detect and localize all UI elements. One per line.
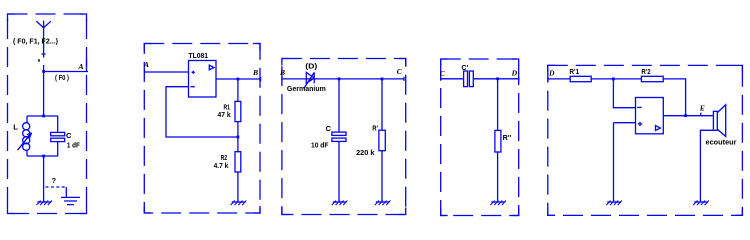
svg-text:TL081: TL081 [189, 53, 209, 60]
svg-text:C: C [440, 69, 446, 78]
svg-text:C: C [66, 131, 72, 140]
svg-text:R': R' [372, 125, 378, 132]
svg-text:4.7 k: 4.7 k [214, 163, 229, 170]
svg-text:1 dF: 1 dF [67, 143, 81, 150]
svg-text:R'1: R'1 [569, 69, 579, 76]
svg-text:R1: R1 [224, 104, 231, 111]
svg-text:B: B [279, 68, 285, 77]
svg-text:D: D [511, 69, 518, 78]
svg-text:A: A [143, 60, 149, 69]
svg-text:C': C' [461, 65, 468, 72]
svg-text:C: C [326, 124, 332, 133]
svg-text:?: ? [52, 176, 57, 185]
svg-text:R'': R'' [503, 135, 512, 142]
svg-text:R'2: R'2 [641, 69, 650, 76]
svg-text:220 k: 220 k [356, 150, 374, 157]
svg-text:A: A [78, 62, 84, 71]
svg-text:C: C [397, 67, 403, 76]
svg-text:L: L [13, 122, 18, 131]
svg-text:Germanium: Germanium [287, 86, 326, 93]
svg-text:D: D [548, 68, 555, 77]
svg-text:( F0 ): ( F0 ) [55, 75, 69, 82]
svg-text:10 dF: 10 dF [311, 142, 329, 149]
svg-text:( F0, F1, F2...): ( F0, F1, F2...) [13, 39, 58, 46]
svg-text:ecouteur: ecouteur [706, 140, 737, 147]
svg-text:47 k: 47 k [218, 112, 231, 119]
svg-text:R2: R2 [221, 155, 228, 162]
svg-text:B: B [252, 68, 258, 77]
svg-text:(D): (D) [305, 64, 317, 71]
svg-text:E: E [699, 104, 705, 113]
